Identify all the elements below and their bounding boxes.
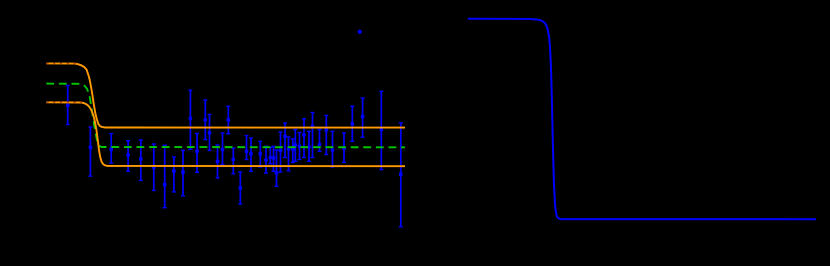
data point with error bar xyxy=(287,137,291,171)
data point with error bar xyxy=(264,146,268,173)
upper orange uncertainty-bound sigmoid xyxy=(46,63,405,127)
data point with error bar xyxy=(226,106,230,134)
data point with error bar xyxy=(293,130,297,162)
data point with error bar xyxy=(238,172,242,204)
data point with error bar xyxy=(221,133,225,165)
data point with error bar xyxy=(258,141,262,167)
isolated outlier data point xyxy=(358,30,362,34)
lower orange uncertainty-bound sigmoid xyxy=(46,102,405,166)
data point with error bar xyxy=(231,148,235,174)
data point with error bar xyxy=(139,140,143,180)
data point with error bar xyxy=(361,98,365,137)
data point with error bar xyxy=(298,133,302,160)
data point with error bar xyxy=(307,131,311,161)
data point with error bar xyxy=(302,119,306,158)
data point with error bar xyxy=(208,115,212,151)
data point with error bar xyxy=(311,113,315,158)
data point with error bar xyxy=(275,150,279,186)
data point with error bar xyxy=(245,136,249,160)
data point with error bar xyxy=(318,130,322,152)
data point with error bar xyxy=(195,133,199,172)
data point with error bar xyxy=(342,133,346,162)
data point with error bar xyxy=(279,132,283,172)
data point with error bar xyxy=(291,139,295,163)
data point with error bar xyxy=(249,138,253,171)
data point with error bar xyxy=(109,134,113,164)
data point with error bar xyxy=(188,90,192,149)
data point with error bar xyxy=(163,145,167,208)
data point with error bar xyxy=(272,146,276,171)
data point with error bar xyxy=(66,85,70,124)
data point with error bar xyxy=(324,116,328,155)
data point with error bar xyxy=(331,131,335,167)
data point with error bar xyxy=(268,148,272,164)
data point with error bar xyxy=(203,100,207,140)
data point with error bar xyxy=(172,157,176,192)
right panel blue model sigmoid xyxy=(468,19,816,219)
data point with error bar xyxy=(379,91,383,169)
data point with error bar xyxy=(126,141,130,172)
green dashed median sigmoid xyxy=(46,84,405,148)
data point with error bar xyxy=(88,127,92,176)
data point with error bar xyxy=(216,145,220,178)
data point with error bar xyxy=(399,123,403,227)
data point with error bar xyxy=(181,150,185,195)
red dashed overlay on lower-left flat xyxy=(46,101,82,103)
data point with error bar xyxy=(350,106,354,141)
data point with error bar xyxy=(152,144,156,190)
data point with error bar xyxy=(283,123,287,158)
red dashed overlay on upper-left flat xyxy=(46,62,78,64)
